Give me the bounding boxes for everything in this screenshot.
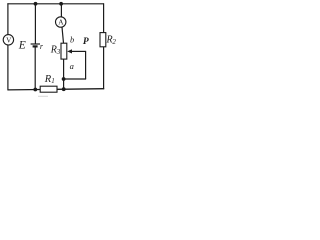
svg-text:R: R xyxy=(50,45,57,56)
svg-text:b: b xyxy=(70,35,74,45)
wire bottom left xyxy=(8,89,41,91)
ammeter A xyxy=(56,17,66,27)
resistor R1 xyxy=(40,86,57,92)
wire right lower xyxy=(103,47,105,89)
wire ammeter upper xyxy=(60,4,62,17)
wire ammeter to R3 xyxy=(62,27,64,43)
wiper arrow head xyxy=(67,49,72,53)
wire wiper return xyxy=(64,78,87,80)
svg-text:3: 3 xyxy=(56,48,61,56)
wire left xyxy=(7,3,9,35)
svg-text:a: a xyxy=(70,61,74,71)
svg-text:r: r xyxy=(40,42,44,51)
battery E short plate xyxy=(33,45,38,47)
node junction battery bottom xyxy=(33,88,37,92)
wire bottom middle xyxy=(57,88,104,91)
node junction battery top xyxy=(34,2,38,6)
svg-text:E: E xyxy=(18,40,26,52)
wire battery branch upper xyxy=(34,4,36,44)
wire wiper horizontal xyxy=(71,50,86,52)
faint caption mark xyxy=(38,95,48,97)
svg-text:V: V xyxy=(6,35,12,44)
wire wiper vertical xyxy=(85,51,87,79)
svg-text:2: 2 xyxy=(112,38,116,46)
wire battery branch lower xyxy=(34,46,36,89)
wire right upper xyxy=(103,3,105,32)
node junction bottom of R3 branch xyxy=(62,87,66,91)
rheostat R3 xyxy=(61,43,67,59)
wire top xyxy=(7,3,104,5)
resistor R2 xyxy=(100,33,106,47)
svg-text:P: P xyxy=(83,37,89,47)
node junction ammeter top xyxy=(59,2,63,6)
svg-text:1: 1 xyxy=(51,77,55,85)
wire left lower xyxy=(7,45,9,90)
svg-text:A: A xyxy=(58,18,64,27)
wire below R3 xyxy=(63,59,65,89)
voltmeter V xyxy=(3,35,13,45)
battery E long plate xyxy=(31,43,40,45)
node junction wiper tap xyxy=(62,77,66,81)
